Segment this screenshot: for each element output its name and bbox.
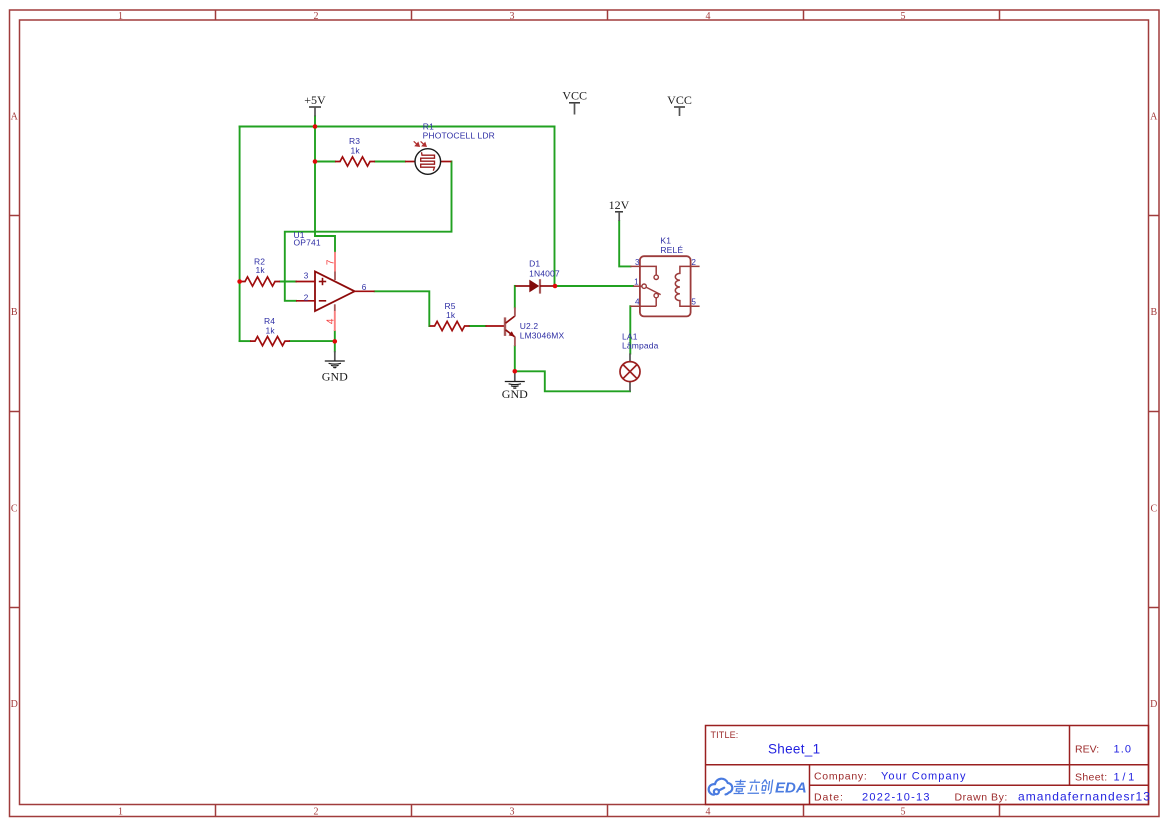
svg-text:3: 3 <box>510 11 515 22</box>
svg-text:1/1: 1/1 <box>1114 772 1137 784</box>
svg-text:Sheet:: Sheet: <box>1075 772 1107 784</box>
svg-text:1k: 1k <box>351 145 361 155</box>
svg-text:2022-10-13: 2022-10-13 <box>862 792 931 804</box>
svg-text:4: 4 <box>706 807 711 818</box>
svg-text:1: 1 <box>118 11 123 22</box>
svg-text:C: C <box>11 504 18 515</box>
svg-text:REV:: REV: <box>1075 744 1099 756</box>
svg-text:PHOTOCELL LDR: PHOTOCELL LDR <box>423 130 495 140</box>
svg-text:2: 2 <box>304 294 309 303</box>
svg-text:1k: 1k <box>256 265 266 275</box>
svg-text:5: 5 <box>691 298 696 307</box>
svg-text:K1: K1 <box>660 235 671 245</box>
svg-text:4: 4 <box>326 318 337 324</box>
svg-text:6: 6 <box>362 283 367 292</box>
svg-text:5: 5 <box>901 807 906 818</box>
svg-text:Sheet_1: Sheet_1 <box>768 742 820 757</box>
svg-text:LM3046MX: LM3046MX <box>520 331 565 341</box>
svg-text:U2.2: U2.2 <box>520 321 539 331</box>
svg-text:EDA: EDA <box>775 780 807 797</box>
svg-text:2: 2 <box>314 807 319 818</box>
svg-text:1: 1 <box>118 807 123 818</box>
svg-text:3: 3 <box>304 271 309 280</box>
svg-text:12V: 12V <box>609 198 630 212</box>
svg-text:Your Company: Your Company <box>881 771 967 783</box>
svg-text:B: B <box>11 307 18 318</box>
svg-text:RELÉ: RELÉ <box>660 245 683 255</box>
svg-text:2: 2 <box>314 11 319 22</box>
svg-text:Drawn By:: Drawn By: <box>955 792 1008 804</box>
svg-text:GND: GND <box>502 387 528 401</box>
svg-text:4: 4 <box>635 298 640 307</box>
svg-text:D: D <box>11 699 18 710</box>
svg-text:A: A <box>1150 112 1158 123</box>
svg-text:2: 2 <box>691 258 696 267</box>
svg-text:A: A <box>11 112 19 123</box>
svg-text:1k: 1k <box>446 310 456 320</box>
svg-text:R4: R4 <box>264 316 275 326</box>
svg-text:GND: GND <box>322 370 348 384</box>
svg-text:amandafernandesr13: amandafernandesr13 <box>1018 790 1151 804</box>
svg-text:4: 4 <box>706 11 711 22</box>
svg-text:7: 7 <box>326 259 337 265</box>
svg-text:TITLE:: TITLE: <box>711 730 739 740</box>
svg-text:C: C <box>1150 504 1157 515</box>
svg-text:3: 3 <box>635 258 640 267</box>
svg-text:VCC: VCC <box>562 89 587 103</box>
svg-text:D1: D1 <box>529 259 540 269</box>
svg-text:VCC: VCC <box>667 93 692 107</box>
svg-text:Lâmpada: Lâmpada <box>622 341 659 351</box>
svg-text:D: D <box>1150 699 1157 710</box>
svg-text:OP741: OP741 <box>294 237 321 247</box>
svg-text:B: B <box>1150 307 1157 318</box>
svg-text:Date:: Date: <box>814 792 844 804</box>
svg-text:1: 1 <box>634 278 639 287</box>
svg-text:1k: 1k <box>266 326 276 336</box>
svg-text:+5V: +5V <box>304 93 326 107</box>
svg-text:1N4007: 1N4007 <box>529 269 560 279</box>
svg-text:3: 3 <box>510 807 515 818</box>
svg-text:Company:: Company: <box>814 771 867 783</box>
svg-text:5: 5 <box>901 11 906 22</box>
svg-text:1.0: 1.0 <box>1114 744 1133 756</box>
